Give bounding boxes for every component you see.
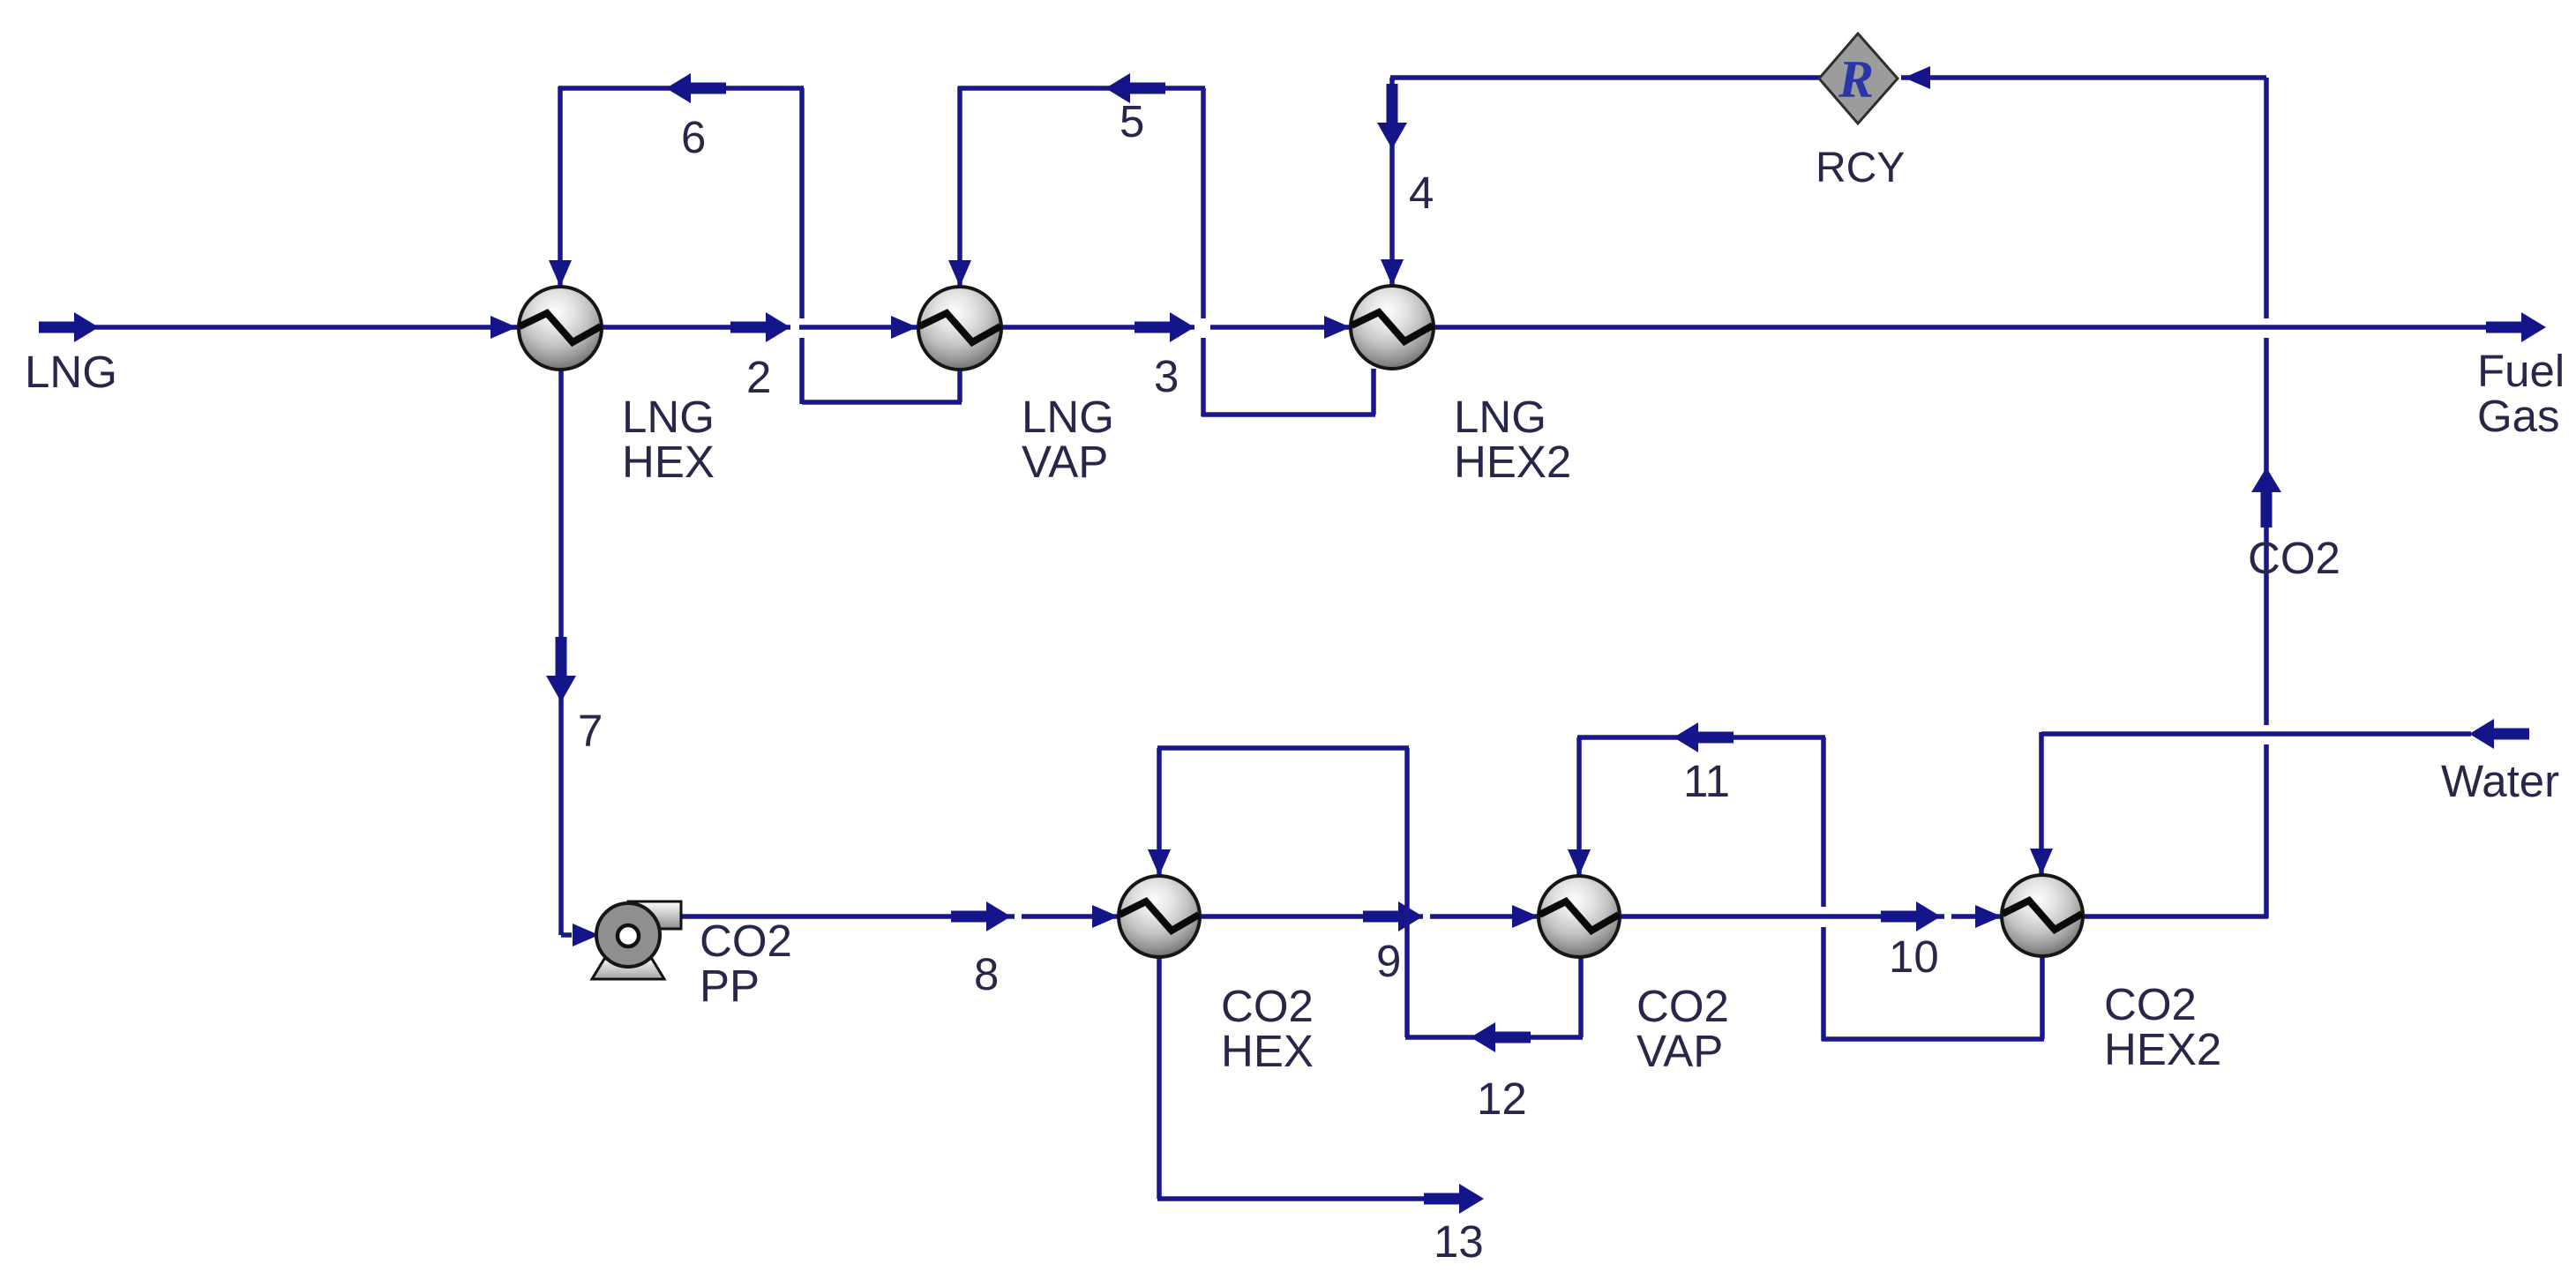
arrow stream 2 bbox=[730, 322, 766, 333]
inlet arrow CO2 PP bbox=[573, 924, 599, 946]
inlet arrow CO2 HEX2 top bbox=[2030, 849, 2053, 875]
svg-text:3: 3 bbox=[1154, 351, 1179, 401]
wire stream 2 (LNG HEX to LNG VAP) bbox=[602, 325, 790, 330]
inlet arrow CO2 HEX left bbox=[1092, 905, 1119, 928]
wire stream 13 (CO2 HEX bottom to outlet) bbox=[1157, 957, 1162, 1199]
svg-text:CO2: CO2 bbox=[1221, 981, 1314, 1031]
wire LNG feed bbox=[95, 325, 519, 330]
wire stream 9 (CO2 HEX to CO2 VAP) bbox=[1200, 914, 1423, 919]
heat exchanger LNG HEX2 bbox=[1351, 286, 1434, 369]
svg-text:VAP: VAP bbox=[1022, 437, 1108, 487]
heat exchanger LNG HEX bbox=[519, 287, 602, 370]
arrow stream 9 bbox=[1363, 911, 1398, 923]
svg-text:5: 5 bbox=[1120, 96, 1144, 146]
svg-text:4: 4 bbox=[1409, 168, 1434, 218]
inlet arrow LNG VAP left bbox=[891, 316, 917, 339]
arrow stream 8 bbox=[951, 911, 986, 923]
arrow stream 5 bbox=[1105, 73, 1130, 103]
arrow stream LNG bbox=[39, 322, 74, 333]
pump CO2 PP bbox=[592, 959, 664, 979]
svg-text:PP: PP bbox=[700, 961, 760, 1011]
wire stream 4 (RCY to LNG HEX2 top) bbox=[1390, 75, 1821, 80]
wire stream 3 (LNG VAP to LNG HEX2) bbox=[1001, 325, 1194, 330]
svg-text:13: 13 bbox=[1434, 1216, 1484, 1267]
heat exchanger CO2 VAP bbox=[1539, 876, 1620, 957]
arrow stream Water bbox=[2469, 719, 2494, 749]
svg-text:LNG: LNG bbox=[622, 392, 715, 442]
svg-text:Water: Water bbox=[2441, 756, 2559, 806]
svg-text:R: R bbox=[1838, 50, 1874, 108]
svg-text:CO2: CO2 bbox=[1636, 981, 1729, 1031]
wire water feed bbox=[2041, 731, 2471, 737]
recycle block RCY bbox=[1819, 34, 1898, 123]
wire stream 8 (CO2 PP to CO2 HEX) bbox=[681, 914, 1015, 919]
arrow stream 10 bbox=[1881, 911, 1916, 923]
svg-text:HEX2: HEX2 bbox=[1454, 437, 1571, 487]
wire stream 7 (LNG HEX bottom to CO2 PP) bbox=[558, 370, 564, 935]
svg-text:Gas: Gas bbox=[2477, 391, 2560, 441]
arrow stream 6 bbox=[666, 73, 691, 103]
wire fuel gas (LNG HEX2 to outlet) bbox=[1434, 325, 2527, 330]
wire RCY inlet (riser top to RCY) bbox=[1901, 75, 2266, 80]
inlet arrow CO2 HEX2 left bbox=[1975, 905, 2002, 928]
svg-text:12: 12 bbox=[1477, 1073, 1527, 1124]
arrow stream 7 bbox=[556, 637, 567, 676]
svg-text:RCY: RCY bbox=[1816, 145, 1905, 191]
svg-text:10: 10 bbox=[1889, 931, 1939, 982]
svg-text:LNG: LNG bbox=[1022, 392, 1114, 442]
wire stream 12 loop (CO2 VAP bottom to CO2 HEX top) bbox=[1578, 957, 1584, 1037]
inlet arrow CO2 VAP top bbox=[1568, 849, 1591, 876]
wire CO2 recycle riser bbox=[2264, 78, 2269, 318]
svg-text:Fuel: Fuel bbox=[2477, 346, 2565, 396]
svg-text:VAP: VAP bbox=[1636, 1026, 1723, 1076]
inlet arrow LNG VAP top bbox=[948, 260, 971, 287]
inlet arrow LNG HEX top bbox=[549, 260, 572, 287]
arrow stream 11 bbox=[1674, 722, 1698, 752]
svg-text:LNG: LNG bbox=[25, 347, 117, 397]
arrow stream Fuel Gas bbox=[2486, 322, 2521, 333]
svg-text:8: 8 bbox=[974, 949, 999, 999]
svg-text:11: 11 bbox=[1683, 756, 1730, 806]
inlet arrow CO2 HEX top bbox=[1148, 849, 1171, 876]
arrow stream 12 bbox=[1471, 1022, 1495, 1052]
heat exchanger LNG VAP bbox=[918, 287, 1001, 370]
svg-text:CO2: CO2 bbox=[2104, 979, 2197, 1029]
inlet arrow LNG HEX2 left bbox=[1324, 316, 1351, 339]
svg-text:HEX2: HEX2 bbox=[2104, 1024, 2221, 1074]
heat exchanger CO2 HEX2 bbox=[2002, 875, 2083, 956]
svg-text:HEX: HEX bbox=[622, 437, 715, 487]
wire stream 11 loop (CO2 HEX2 bottom to CO2 VAP top) bbox=[2040, 956, 2045, 1039]
inlet arrow LNG HEX left bbox=[490, 316, 517, 339]
svg-text:HEX: HEX bbox=[1221, 1026, 1314, 1076]
svg-text:6: 6 bbox=[681, 112, 706, 162]
arrow stream CO2 bbox=[2251, 467, 2281, 492]
wire stream 5 loop (LNG HEX2 bottom to LNG VAP top) bbox=[1371, 369, 1376, 415]
arrow stream 3 bbox=[1134, 322, 1170, 333]
arrow stream 13 bbox=[1424, 1193, 1459, 1205]
svg-text:LNG: LNG bbox=[1454, 392, 1546, 442]
wire stream 10 (CO2 VAP to CO2 HEX2) bbox=[1620, 914, 1944, 919]
inlet arrow CO2 VAP left bbox=[1512, 905, 1539, 928]
svg-text:CO2: CO2 bbox=[2248, 533, 2340, 583]
svg-text:2: 2 bbox=[746, 352, 771, 402]
svg-text:CO2: CO2 bbox=[700, 916, 792, 966]
arrow stream 4 bbox=[1387, 84, 1398, 123]
svg-text:9: 9 bbox=[1376, 936, 1401, 986]
heat exchanger CO2 HEX bbox=[1119, 876, 1200, 957]
svg-text:7: 7 bbox=[578, 706, 603, 756]
inlet arrow RCY right bbox=[1904, 66, 1930, 89]
wire stream 6 loop (LNG VAP bottom to LNG HEX top) bbox=[957, 370, 962, 402]
inlet arrow LNG HEX2 top bbox=[1381, 259, 1404, 286]
